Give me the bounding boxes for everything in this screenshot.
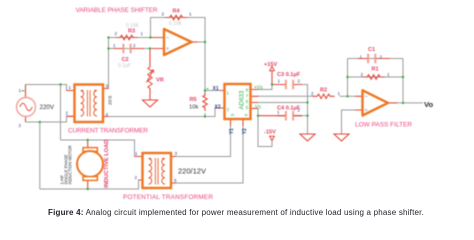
wire bottom bus CT pin4 to X2: [109, 108, 221, 117]
svg-text:20:5: 20:5: [108, 95, 114, 105]
wire AD633 bottom pin stubs: [231, 119, 244, 126]
node LPF output: [402, 102, 404, 104]
vertical text 1-HP SINGLE PHASE INDUCTION MOTOR: [59, 145, 72, 184]
svg-text:1: 1: [227, 91, 230, 96]
AC source V1 220V: [17, 98, 36, 117]
svg-text:3: 3: [230, 113, 235, 116]
svg-text:1: 1: [338, 91, 341, 96]
svg-text:1: 1: [135, 151, 138, 156]
svg-text:220V: 220V: [40, 104, 55, 111]
node non-inverting input / VR: [149, 47, 151, 49]
current transformer TX1: [75, 85, 104, 123]
resistor R2: [313, 94, 335, 98]
svg-text:LOW PASS FILTER: LOW PASS FILTER: [355, 121, 412, 128]
wire AD633 pin8 to +15V node: [257, 85, 272, 90]
op-amp U2 low pass filter: [363, 90, 389, 115]
svg-text:-Vs: -Vs: [254, 104, 262, 110]
svg-text:7: 7: [246, 94, 249, 99]
wire CT pin3 riser: [104, 38, 109, 89]
resistor R5: [203, 92, 207, 111]
svg-text:2: 2: [298, 108, 301, 113]
svg-text:2: 2: [133, 43, 136, 48]
capacitor C1: [358, 54, 391, 64]
wire motor top lead: [87, 140, 89, 148]
svg-text:1: 1: [113, 43, 116, 48]
svg-text:1: 1: [277, 110, 280, 115]
svg-text:8: 8: [246, 88, 249, 93]
resistor R1: [363, 75, 385, 79]
variable resistor VR: [146, 67, 153, 88]
node R5 bottom: [204, 115, 206, 117]
node opamp1 output: [204, 41, 206, 43]
svg-text:C3 0.1µF: C3 0.1µF: [277, 72, 301, 78]
node motor top pin: [87, 139, 89, 141]
svg-text:POTENTIAL TRANSFORMER: POTENTIAL TRANSFORMER: [123, 194, 213, 201]
AD633 pin numbers and names (green): [227, 85, 264, 116]
svg-text:1: 1: [141, 31, 144, 36]
wire C1 row: [348, 58, 404, 60]
node C4 / ground column: [306, 115, 308, 117]
-15V power symbol: [270, 136, 275, 140]
svg-text:1: 1: [360, 54, 363, 59]
wire source top to CT pin1: [26, 85, 75, 91]
svg-text:0.1µF: 0.1µF: [118, 63, 131, 69]
wire PT pin5 to AD633 Y2: [176, 125, 243, 183]
wire AD633 pin6 Z row: [257, 102, 308, 104]
wire VR top lead: [149, 49, 151, 68]
wire C3 row right elbow down: [301, 85, 308, 135]
svg-text:2: 2: [115, 31, 118, 36]
wire bottom-left drop: [39, 122, 41, 189]
wire opamp1 output to X1/R5 column: [198, 42, 206, 92]
svg-text:1: 1: [69, 85, 72, 90]
pin tick source top: [22, 90, 25, 92]
svg-text:3: 3: [175, 151, 178, 156]
wire load top row to PT pin1: [61, 140, 143, 157]
node X1: [204, 89, 206, 91]
svg-text:Y1: Y1: [229, 128, 235, 134]
capacitor C3: [273, 80, 303, 90]
wire +15V lead: [271, 71, 273, 85]
svg-text:0.15K: 0.15K: [126, 23, 140, 29]
svg-text:5: 5: [246, 105, 249, 110]
svg-text:2: 2: [19, 123, 22, 128]
capacitor C4: [259, 111, 303, 121]
ground for C3/C4: [300, 134, 315, 141]
wire R5 bottom to bottom bus: [204, 113, 206, 117]
wire LPF + input ground drop: [342, 110, 356, 134]
wire X2 short stub: [215, 107, 220, 109]
svg-text:Vo: Vo: [424, 100, 434, 109]
svg-text:X2: X2: [215, 104, 221, 110]
ground below VR: [143, 100, 158, 107]
svg-text:+15V: +15V: [264, 62, 277, 68]
svg-text:2: 2: [162, 12, 165, 17]
svg-text:VARIABLE PHASE SHIFTER: VARIABLE PHASE SHIFTER: [76, 7, 158, 14]
svg-text:1: 1: [387, 72, 390, 77]
svg-text:2: 2: [298, 78, 301, 83]
node Z / ground column: [306, 101, 308, 103]
svg-text:3: 3: [106, 84, 109, 89]
node phase shifter input top: [107, 36, 109, 38]
potential transformer TX2: [143, 153, 172, 188]
svg-text:1: 1: [278, 78, 281, 83]
wire R4 feedback top run: [151, 18, 206, 43]
wire feedback left column: [347, 59, 349, 97]
svg-text:+Vs: +Vs: [254, 85, 263, 91]
induction motor (inductive load): [77, 148, 103, 181]
svg-text:2: 2: [227, 107, 230, 112]
pin tick X1: [207, 88, 209, 90]
wire AD633 pin5 drop to C4 row and -15V elbow: [258, 109, 272, 147]
+15V power symbol: [270, 67, 275, 71]
wire VR bottom lead to ground: [149, 88, 151, 100]
caption: [48, 208, 424, 217]
node motor bottom pin: [87, 188, 89, 190]
wire load bottom row to PT pin2: [40, 180, 143, 189]
wire PT pin3 to AD633 Y1: [176, 125, 231, 157]
svg-text:-15V: -15V: [264, 129, 276, 135]
node source bottom / left drop: [39, 121, 41, 123]
wire opamp1 output stub: [192, 41, 198, 43]
wire opamp1 input stubs: [152, 38, 165, 49]
ground for LPF non-inverting input: [334, 134, 349, 141]
node R1 right: [402, 76, 404, 78]
svg-text:10k: 10k: [189, 105, 198, 111]
svg-text:R4: R4: [173, 9, 181, 15]
wire AD633 right pin stubs: [251, 90, 259, 109]
svg-text:2: 2: [311, 91, 314, 96]
svg-text:6: 6: [246, 99, 249, 104]
svg-text:C1: C1: [368, 47, 375, 53]
svg-text:0.15K: 0.15K: [169, 21, 183, 27]
op-amp U1 phase shifter: [164, 29, 192, 55]
svg-text:R3: R3: [128, 29, 135, 35]
wire motor bottom lead: [87, 180, 89, 189]
wire C2 row (non-inverting input row): [109, 48, 165, 50]
wire LPF output to Vo: [396, 102, 423, 104]
node source top / left drop: [59, 83, 61, 85]
pin numbers (blue): [19, 12, 391, 184]
wire source bottom to CT pin2: [26, 116, 75, 122]
svg-text:Y2: Y2: [242, 128, 248, 134]
resistor R3: [116, 35, 138, 39]
node phase shifter input bottom: [107, 47, 109, 49]
resistor R4: [165, 15, 187, 19]
wire R2 right to LPF inverting input: [340, 95, 356, 97]
wire AD633 pin7 W row to R2: [257, 95, 313, 97]
wire feedback right column: [402, 59, 404, 103]
wire X1 into AD633 pin1: [205, 90, 220, 92]
wire C4 row right to ground column: [301, 115, 308, 117]
wire PT pin stubs: [135, 157, 177, 184]
wire source bottom lead: [25, 116, 27, 122]
svg-text:220/12V: 220/12V: [178, 167, 206, 176]
svg-text:2: 2: [361, 72, 364, 77]
svg-text:4: 4: [244, 113, 249, 116]
node inverting input / R4: [149, 36, 151, 38]
svg-text:2: 2: [380, 54, 383, 59]
svg-text:1: 1: [189, 12, 192, 17]
wire CT pin stubs: [67, 89, 109, 117]
svg-text:VR: VR: [156, 78, 164, 84]
wire R3 row (inverting input row): [109, 37, 165, 39]
svg-text:AD633: AD633: [239, 90, 246, 109]
wire AD633 left pin stubs: [220, 91, 225, 109]
svg-text:CURRENT TRANSFORMER: CURRENT TRANSFORMER: [68, 128, 148, 135]
wire LPF output stub: [388, 102, 397, 104]
svg-text:4: 4: [106, 112, 109, 117]
wire R1 row: [348, 76, 404, 78]
node R1 left: [346, 76, 348, 78]
svg-text:2: 2: [135, 175, 138, 180]
svg-text:5: 5: [174, 178, 177, 183]
multiplier IC AD633: [225, 84, 251, 119]
svg-text:R2: R2: [320, 87, 327, 93]
svg-text:INDUCTIVE LOAD: INDUCTIVE LOAD: [104, 140, 110, 188]
wire left tall drop to load row: [60, 85, 62, 141]
node +Vs / C3: [271, 83, 273, 85]
wire LPF input stubs: [355, 96, 363, 110]
wire source top lead: [25, 85, 27, 98]
svg-text:INDUCTION MOTOR: INDUCTION MOTOR: [68, 145, 73, 184]
capacitor C2: [114, 44, 145, 54]
svg-text:R1: R1: [372, 66, 379, 72]
node LPF inverting input: [346, 95, 348, 97]
node -Vs / C4: [257, 115, 259, 117]
svg-text:1: 1: [19, 88, 22, 93]
svg-text:X1: X1: [213, 86, 219, 92]
svg-text:R5: R5: [190, 97, 197, 103]
svg-text:2: 2: [66, 111, 69, 116]
